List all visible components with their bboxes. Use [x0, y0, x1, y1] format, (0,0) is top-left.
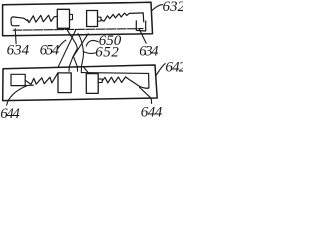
resistor structure R2 outer body 642 [3, 65, 158, 101]
R1 inner baseline [13, 29, 143, 31]
svg-text:644: 644 [141, 104, 163, 120]
conductor 652 long diagonal [58, 31, 75, 67]
conductor 652 second line [73, 34, 88, 71]
wire loop to zigzag [24, 18, 28, 21]
resistor zigzag right R1 [101, 13, 144, 22]
svg-text:642: 642 [165, 60, 183, 76]
svg-text:654: 654 [40, 42, 59, 58]
resistor zigzag left R2 [31, 73, 58, 85]
loop bottom ledge R2 [25, 84, 33, 86]
conductor 650 second line [78, 34, 84, 73]
svg-text:652: 652 [95, 44, 119, 60]
leader 644 right [139, 87, 151, 103]
leader 642 [156, 64, 166, 76]
R1 left terminal loop [11, 17, 24, 26]
leader 634 left [14, 29, 17, 44]
leader 644 left [7, 86, 27, 105]
svg-text:632: 632 [163, 0, 184, 15]
pad P2 tab [98, 17, 102, 21]
pad P4 tab [98, 79, 102, 83]
wire to pad P4 corner [83, 67, 89, 74]
pad P1 tab [70, 14, 73, 19]
svg-text:634: 634 [139, 44, 158, 60]
leader 650 [86, 40, 98, 46]
pad P4 [86, 74, 98, 94]
resistor zigzag right R2 [102, 74, 149, 89]
resistor zigzag left R1 [28, 15, 58, 22]
leader 634 right [140, 30, 147, 44]
R2 inner top edge [81, 72, 148, 75]
pad P1 [57, 9, 69, 28]
leader 652 [83, 51, 96, 53]
pad P2 [87, 11, 98, 27]
svg-text:634: 634 [7, 42, 30, 58]
conductor 650 curving line [68, 30, 78, 71]
leader 632 [152, 5, 163, 11]
wire loop to zigzag R2 [25, 80, 31, 84]
svg-text:644: 644 [0, 106, 19, 120]
leader 654 [57, 40, 66, 49]
pad P3 [58, 73, 71, 93]
R2 left terminal loop [11, 74, 25, 85]
resistor structure R1 outer body 632 [3, 2, 153, 35]
right end pad U [136, 21, 145, 31]
